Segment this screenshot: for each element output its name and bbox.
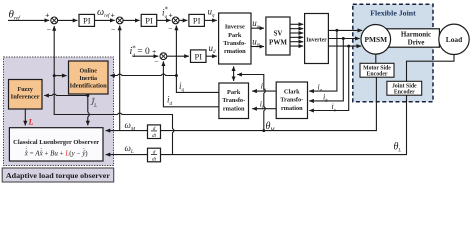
- svg-text:d: d: [153, 149, 156, 155]
- svg-text:−: −: [47, 25, 52, 34]
- svg-text:PI: PI: [145, 16, 153, 26]
- svg-text:Encoder: Encoder: [394, 89, 415, 95]
- svg-text:Identification: Identification: [70, 83, 108, 89]
- svg-text:Transfo-: Transfo-: [280, 97, 303, 104]
- svg-text:Transfo-: Transfo-: [223, 40, 246, 47]
- svg-text:Inverse: Inverse: [225, 24, 245, 31]
- svg-text:Inferencer: Inferencer: [11, 95, 40, 101]
- svg-text:PI: PI: [193, 16, 201, 26]
- svg-text:rmation: rmation: [223, 105, 245, 112]
- svg-text:+: +: [111, 10, 115, 19]
- svg-text:PI: PI: [83, 16, 91, 26]
- svg-text:d: d: [153, 126, 156, 132]
- svg-text:Inertia: Inertia: [79, 76, 97, 82]
- svg-text:Classical Luenberger Observer: Classical Luenberger Observer: [13, 139, 99, 146]
- svg-text:+: +: [152, 47, 156, 56]
- svg-text:rmation: rmation: [281, 105, 303, 112]
- svg-text:PI: PI: [195, 51, 203, 61]
- svg-text:Clark: Clark: [284, 88, 300, 95]
- svg-text:Adaptive load torque observer: Adaptive load torque observer: [6, 171, 111, 180]
- svg-text:Flexible Joint: Flexible Joint: [370, 8, 416, 17]
- svg-text:−: −: [168, 24, 173, 33]
- svg-text:Drive: Drive: [408, 38, 425, 46]
- svg-text:Inverter: Inverter: [306, 36, 327, 43]
- svg-text:dt: dt: [152, 157, 157, 163]
- svg-text:SV: SV: [274, 30, 283, 38]
- svg-text:−: −: [111, 25, 116, 34]
- svg-text:Load: Load: [446, 35, 463, 44]
- svg-text:dt: dt: [152, 133, 157, 139]
- svg-text:Encoder: Encoder: [367, 71, 388, 77]
- svg-text:rmation: rmation: [224, 48, 246, 55]
- svg-text:x̂̇ = Ax̂ + Bu + L(y − ŷ): x̂̇ = Ax̂ + Bu + L(y − ŷ): [24, 149, 89, 157]
- svg-text:i*d = 0: i*d = 0: [130, 44, 151, 59]
- svg-text:Park: Park: [228, 32, 242, 39]
- svg-text:L: L: [28, 118, 34, 127]
- svg-text:Park: Park: [227, 89, 241, 96]
- svg-text:Online: Online: [80, 68, 98, 74]
- svg-text:+: +: [45, 10, 49, 19]
- svg-text:+: +: [168, 11, 172, 20]
- svg-text:PWM: PWM: [269, 38, 287, 46]
- svg-text:Fuzzy: Fuzzy: [18, 87, 33, 93]
- svg-text:PMSM: PMSM: [365, 35, 388, 44]
- svg-text:Transfo-: Transfo-: [222, 97, 245, 104]
- svg-text:−: −: [154, 57, 159, 66]
